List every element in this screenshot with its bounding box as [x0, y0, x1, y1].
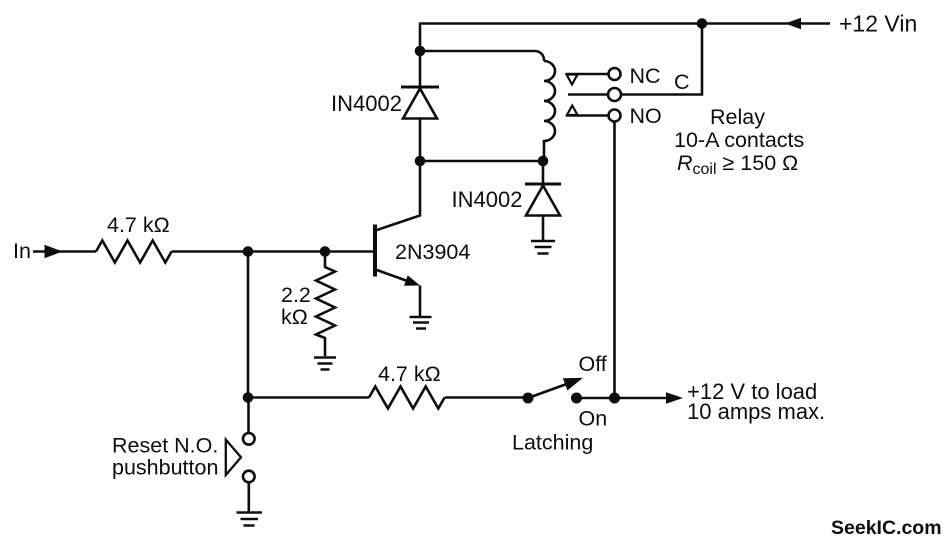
diode D1 IN4002 cathode bar — [401, 86, 439, 89]
svg-text:Reset N.O.: Reset N.O. — [112, 434, 218, 458]
node coil top / D1 cathode junction dot — [415, 46, 426, 57]
transistor Q1 emitter — [374, 269, 413, 283]
node switch On dot — [571, 393, 582, 404]
wire R1 to base node — [172, 250, 375, 253]
svg-text:10 amps max.: 10 amps max. — [687, 399, 825, 424]
pushbutton S2 top terminal circle — [243, 433, 255, 445]
resistor R2 2.2k vertical — [316, 252, 335, 357]
relay contact NC triangle — [567, 75, 578, 85]
svg-text:NC: NC — [630, 64, 661, 88]
output arrowhead — [666, 392, 683, 404]
ground emitter — [410, 317, 432, 329]
input arrow In — [33, 250, 50, 253]
ground pushbutton — [237, 513, 263, 526]
node switch pole dot — [523, 393, 534, 404]
relay contact NO terminal circle — [609, 110, 621, 122]
node bottom left junction dot — [243, 392, 254, 403]
svg-text:On: On — [579, 407, 608, 431]
svg-text:2N3904: 2N3904 — [395, 240, 470, 264]
wire coil top from trunk to coil — [420, 51, 544, 61]
node output junction dot — [609, 393, 620, 404]
wire D2 cathode up to coil bottom node — [542, 161, 545, 184]
relay contact C lead left — [568, 93, 608, 96]
resistor R3 4.7k — [369, 387, 445, 409]
relay coil K1 (4 bumps) — [544, 61, 555, 161]
node coil bottom / D2 junction dot — [538, 156, 549, 167]
transistor Q1 collector — [374, 161, 420, 231]
wire D2 anode to ground — [542, 216, 545, 242]
wire left trunk down — [247, 252, 250, 398]
svg-text:C: C — [674, 70, 690, 94]
diode D1 IN4002 triangle — [403, 89, 437, 119]
svg-text:kΩ: kΩ — [281, 305, 308, 329]
switch S1 arm arrowhead — [563, 378, 583, 391]
svg-text:4.7 kΩ: 4.7 kΩ — [378, 362, 441, 386]
relay contact NO triangle — [567, 106, 578, 116]
node 2.2k junction dot — [320, 246, 331, 257]
relay contact NC terminal circle — [609, 68, 621, 80]
svg-text:4.7 kΩ: 4.7 kΩ — [107, 213, 170, 237]
diode D2 IN4002 triangle — [526, 186, 560, 216]
transistor Q1 emitter arrowhead — [404, 275, 420, 285]
relay contact NO lead — [566, 114, 608, 117]
wire coil bottom horizontal — [420, 160, 544, 163]
svg-text:NO: NO — [630, 104, 662, 128]
svg-text:+12 Vin: +12 Vin — [839, 11, 917, 37]
wire In to R1 — [58, 250, 96, 253]
switch S1 arm — [528, 384, 568, 399]
relay contact NC lead — [566, 73, 608, 76]
wire top rail +12 Vin — [420, 22, 830, 25]
svg-text:Off: Off — [579, 352, 607, 376]
wire bottom feedback left — [248, 396, 369, 399]
resistor R1 4.7k — [96, 241, 172, 263]
svg-text:Latching: Latching — [512, 431, 593, 455]
wire D1 anode down to coil-bottom node — [419, 119, 422, 162]
wire emitter to ground — [419, 286, 422, 318]
wire R3 to switch — [445, 396, 528, 399]
arrowhead +12 Vin pointing left — [785, 18, 801, 29]
wire vertical trunk x=420 top corner down to diode D1 — [419, 23, 422, 88]
svg-text:SeekIC.com: SeekIC.com — [831, 517, 942, 539]
ground under D2 — [531, 241, 555, 254]
pushbutton S2 actuator triangle — [226, 440, 241, 475]
svg-text:2.2: 2.2 — [281, 283, 311, 307]
svg-text:Rcoil ≥ 150 Ω: Rcoil ≥ 150 Ω — [677, 151, 798, 178]
svg-text:10-A contacts: 10-A contacts — [674, 128, 804, 152]
wire output — [577, 397, 668, 400]
svg-text:Relay: Relay — [710, 105, 765, 129]
pushbutton S2 bottom terminal circle — [243, 471, 255, 483]
node base trunk junction dot — [243, 246, 254, 257]
svg-text:IN4002: IN4002 — [452, 187, 523, 212]
wire C to +12 rail — [621, 24, 702, 95]
wire trunk to pushbutton — [247, 398, 250, 434]
diode D2 IN4002 cathode bar — [525, 183, 561, 186]
transistor Q1 base bar — [373, 225, 377, 277]
svg-text:pushbutton: pushbutton — [112, 456, 218, 480]
wire pushbutton to ground — [248, 482, 251, 512]
ground under R2 — [314, 358, 336, 370]
node D1 anode junction dot — [415, 156, 426, 167]
wire NO down to output node — [613, 122, 616, 399]
relay contact C terminal circle — [608, 88, 621, 101]
svg-text:IN4002: IN4002 — [331, 91, 402, 116]
svg-text:In: In — [13, 239, 31, 263]
node C rail junction dot — [697, 18, 708, 29]
